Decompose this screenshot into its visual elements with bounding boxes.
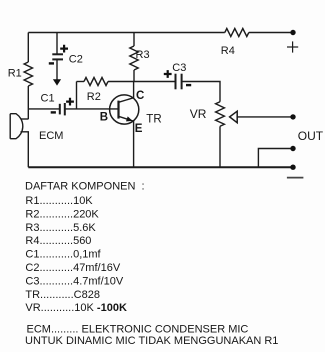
resistor R4 [225, 29, 249, 37]
potentiometer VR [216, 102, 225, 126]
resistor R2 [77, 78, 134, 86]
wire top rail left segment [28, 32, 225, 34]
svg-text:ECM: ECM [39, 130, 63, 142]
svg-text:R1: R1 [8, 68, 22, 80]
node output middle dot [290, 146, 295, 151]
resistor R3 bottom lead [133, 70, 135, 82]
wire left rail upper [27, 33, 29, 63]
resistor R3 [130, 46, 138, 70]
wire left rail lower / node to base wire [27, 86, 29, 119]
wire VR bottom lead [219, 126, 221, 167]
capacitor C2 lower lead with arrow [53, 59, 61, 85]
svg-text:R1...........10K: R1...........10K [25, 195, 93, 207]
svg-text:ECM......... ELEKTRONIC CONDEN: ECM......... ELEKTRONIC CONDENSER MIC [27, 324, 249, 336]
svg-text:C1...........0,1mf: C1...........0,1mf [25, 249, 101, 261]
potentiometer VR wiper arrow [230, 111, 238, 123]
svg-text:C1: C1 [41, 93, 55, 105]
capacitor C3 [176, 74, 182, 90]
C1 minus [51, 111, 56, 113]
capacitor C1 [60, 103, 65, 115]
svg-text:R3: R3 [136, 49, 150, 61]
svg-text:VR...........10K -100K: VR...........10K -100K [25, 302, 127, 314]
svg-text:B: B [100, 112, 108, 124]
microphone ECM symbol [10, 114, 23, 139]
svg-text:R2: R2 [87, 91, 101, 103]
svg-text:C2...........47mf/16V: C2...........47mf/16V [25, 262, 120, 274]
wire base net: node to C1 [28, 108, 59, 110]
svg-text:C2: C2 [69, 54, 83, 66]
wire mic bottom stub and ground lead [21, 132, 29, 167]
wire C1 to base B [65, 108, 119, 110]
resistor R3 top lead [133, 33, 135, 47]
svg-text:C: C [136, 90, 144, 102]
svg-text:OUT: OUT [298, 129, 324, 143]
output minus bar [287, 177, 304, 179]
svg-text:UNTUK DINAMIC MIC TIDAK MENGGU: UNTUK DINAMIC MIC TIDAK MENGGUNAKAN R1 [25, 335, 278, 347]
svg-text:TR: TR [146, 113, 161, 125]
svg-text:R2...........220K: R2...........220K [25, 208, 99, 220]
wire R2 left stub [76, 82, 78, 109]
node supply + terminal dot [290, 30, 295, 35]
C3 minus [186, 84, 191, 86]
C1 plus [66, 98, 74, 106]
C2 plus [60, 45, 68, 53]
wire mic top stub [21, 118, 29, 120]
svg-text:R3...........5.6K: R3...........5.6K [25, 222, 96, 234]
wire wiper to out dot [237, 116, 293, 118]
supply plus sign [287, 41, 298, 52]
capacitor C2 [52, 54, 63, 59]
wire emitter rail [133, 121, 135, 167]
svg-text:VR: VR [190, 107, 207, 121]
svg-text:C3...........4.7mf/10V: C3...........4.7mf/10V [25, 275, 123, 287]
wire bottom ground rail [28, 166, 293, 168]
transistor TR [110, 95, 139, 124]
C2 minus [49, 62, 54, 64]
svg-text:R4: R4 [221, 45, 235, 57]
svg-text:R4...........560: R4...........560 [25, 235, 91, 247]
wire output link middle [258, 149, 293, 168]
C3 plus [164, 70, 172, 78]
wire collector node to C3 [134, 81, 176, 83]
svg-text:E: E [135, 123, 143, 135]
wire top rail right segment [249, 32, 293, 34]
node wiper output dot [290, 114, 295, 119]
resistor R1 [24, 62, 32, 86]
svg-text:DAFTAR KOMPONEN :: DAFTAR KOMPONEN : [25, 181, 145, 193]
wire collector lead [133, 82, 135, 99]
node output bottom dot [290, 165, 295, 170]
capacitor C2 lead from top rail [56, 33, 58, 55]
svg-text:TR...........C828: TR...........C828 [25, 289, 100, 301]
wire C3 to VR top [182, 82, 220, 102]
svg-text:C3: C3 [172, 62, 186, 74]
